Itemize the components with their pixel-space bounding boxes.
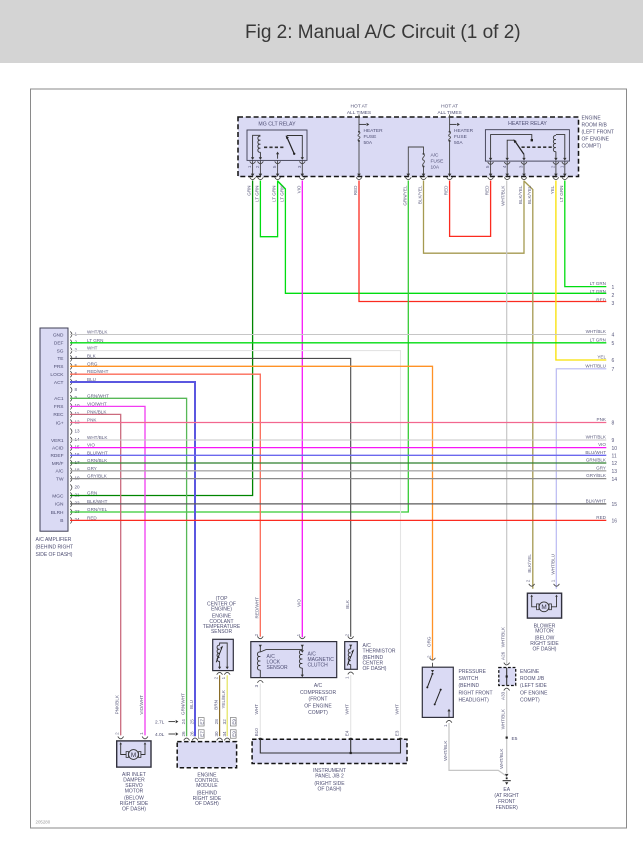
svg-text:WHT/BLK: WHT/BLK [501, 708, 506, 729]
mid wire colour labels [115, 554, 556, 769]
svg-text:6: 6 [75, 371, 78, 376]
A/C amplifier pin connectors and numbers [70, 331, 80, 523]
wire PNK/BLK amplifier pin11 to servo motor pin2 [70, 414, 121, 735]
svg-text:COMPT): COMPT) [520, 698, 540, 704]
svg-text:1: 1 [75, 331, 78, 336]
svg-text:COMPT): COMPT) [308, 710, 328, 716]
svg-text:GRY: GRY [596, 465, 606, 470]
wire WHT/BLK amplifier pin14 to right exit 9 [70, 439, 606, 441]
svg-text:2: 2 [255, 165, 260, 168]
svg-text:4: 4 [612, 333, 615, 339]
wire LT GRN heater relay pin1 to right exit 1 [565, 181, 607, 287]
svg-text:34: 34 [222, 731, 227, 737]
svg-text:6: 6 [612, 358, 615, 364]
wire RED/WHT amplifier pin6 to A/C lock sensor pin2 [70, 374, 260, 637]
svg-text:BLU/WHT: BLU/WHT [585, 450, 606, 455]
svg-text:BLK/YEL: BLK/YEL [418, 185, 423, 204]
svg-text:1: 1 [247, 165, 252, 168]
wire BLU/WHT amplifier pin16 to right exit 11 [70, 454, 606, 456]
wire YEL heater relay pin2 to right exit 6 [556, 181, 606, 361]
svg-text:FUSE: FUSE [431, 159, 444, 165]
svg-text:HOT AT: HOT AT [351, 104, 368, 110]
ECT sensor pin numbers [214, 676, 227, 679]
svg-text:E9: E9 [231, 719, 236, 725]
svg-text:12: 12 [75, 419, 81, 424]
wire BLU amplifier pin7 to ECM [70, 382, 195, 736]
svg-text:5: 5 [485, 165, 490, 168]
wire VIO relay pin3 to A/C magnetic clutch pin1 [301, 181, 303, 638]
header title bar [0, 0, 643, 63]
svg-text:OF DASH): OF DASH) [122, 806, 146, 812]
svg-text:2: 2 [75, 340, 78, 345]
svg-text:3: 3 [254, 684, 259, 687]
svg-text:2.7L: 2.7L [155, 719, 165, 725]
svg-text:FUSE: FUSE [364, 134, 377, 140]
svg-text:OF DASH): OF DASH) [363, 666, 387, 672]
svg-text:VIO: VIO [296, 185, 301, 193]
svg-text:(BEHIND RIGHT: (BEHIND RIGHT [36, 545, 74, 551]
svg-text:WHT/BLK: WHT/BLK [501, 185, 506, 206]
svg-text:20: 20 [75, 484, 81, 489]
svg-text:IGN: IGN [55, 502, 64, 508]
svg-text:FUSE: FUSE [454, 134, 467, 140]
wire VIO/WHT amplifier pin10 to servo motor pin1 [70, 406, 145, 735]
svg-text:BLK/YEL: BLK/YEL [527, 185, 532, 204]
svg-text:2: 2 [214, 676, 219, 679]
svg-text:WHT/BLK: WHT/BLK [499, 748, 504, 769]
compressor pin numbers 2 1 3 [254, 633, 301, 687]
svg-text:3: 3 [612, 301, 615, 307]
svg-text:CLUTCH: CLUTCH [308, 663, 329, 669]
wire WHT/BLK pressure switch pin1 to ground EA [449, 723, 507, 776]
svg-text:2: 2 [254, 633, 259, 636]
top wire colour labels [247, 185, 564, 206]
svg-text:COMPT): COMPT) [582, 144, 602, 150]
svg-text:ORG: ORG [87, 361, 98, 366]
pressure switch pin numbers [426, 655, 448, 727]
svg-text:BLK: BLK [87, 353, 97, 358]
svg-text:M: M [131, 752, 136, 759]
hot at all times feed 1 [347, 104, 371, 117]
svg-text:12: 12 [612, 461, 618, 467]
svg-text:OF DASH): OF DASH) [195, 801, 219, 807]
A/C amplifier wire colour labels [87, 330, 109, 521]
instrument panel J/B 2 block [252, 738, 407, 763]
svg-text:RED: RED [87, 515, 97, 520]
MG CLT relay pin stubs and connectors [250, 160, 306, 179]
svg-text:WHT/BLK: WHT/BLK [501, 626, 506, 647]
wire LT GRN branch to right exit 2 [278, 181, 607, 293]
svg-text:PNK/BLK: PNK/BLK [115, 694, 120, 714]
svg-text:PANEL J/B 2: PANEL J/B 2 [315, 774, 344, 780]
svg-text:FRS: FRS [54, 404, 64, 410]
svg-text:WHT/BLK: WHT/BLK [586, 435, 607, 440]
svg-text:1: 1 [443, 724, 448, 727]
svg-text:9: 9 [612, 438, 615, 444]
svg-text:1: 1 [559, 165, 564, 168]
wire YEL/BLK ECT sensor pin1 to ECM [226, 675, 228, 736]
svg-text:ENGINE: ENGINE [520, 669, 540, 675]
svg-text:BLK/WHT: BLK/WHT [87, 499, 108, 504]
svg-text:16: 16 [75, 452, 81, 457]
svg-text:15: 15 [75, 444, 81, 449]
fuse HEATER FUSE 50A (right) [447, 115, 474, 180]
svg-text:32: 32 [222, 719, 227, 725]
svg-text:E5: E5 [512, 736, 518, 742]
wire GRN/BLK amplifier pin17 to right exit 12 [70, 462, 606, 464]
svg-text:RED/WHT: RED/WHT [254, 597, 259, 619]
wire LT GRN amplifier pin2 to right exit 5 [70, 342, 606, 344]
svg-text:LT GRN: LT GRN [590, 281, 606, 286]
svg-text:MODULE: MODULE [196, 783, 218, 789]
svg-text:RED: RED [444, 185, 449, 195]
svg-text:28: 28 [214, 719, 219, 725]
svg-text:8: 8 [612, 421, 615, 427]
svg-text:E7: E7 [199, 731, 204, 737]
svg-text:WHT: WHT [254, 704, 259, 715]
A/C compressor caption [300, 683, 337, 716]
fuse HEATER FUSE 50A (left) [356, 115, 383, 180]
svg-text:RIGHT FRONT: RIGHT FRONT [459, 690, 493, 696]
wire WHT amplifier pin3 to instrument panel J/B pin E3 [70, 351, 401, 737]
svg-text:BLU/WHT: BLU/WHT [87, 450, 108, 455]
svg-text:WHT/BLK: WHT/BLK [87, 435, 108, 440]
svg-text:2: 2 [426, 655, 431, 658]
svg-text:5: 5 [272, 165, 277, 168]
svg-text:15: 15 [612, 502, 618, 508]
svg-text:24: 24 [181, 719, 186, 725]
engine room R/B label [582, 116, 614, 150]
svg-text:HOT AT: HOT AT [441, 104, 458, 110]
wire BRN ECT sensor pin2 to ECM [219, 675, 221, 736]
wire GRY amplifier pin18 to right exit 13 [70, 470, 606, 472]
svg-text:SG: SG [57, 348, 64, 354]
A/C amplifier pin names [50, 332, 64, 524]
instrument panel J/B pin labels B10 E4 E3 [254, 728, 399, 737]
svg-text:205280: 205280 [36, 820, 51, 825]
svg-text:LT GRN: LT GRN [559, 186, 564, 202]
svg-text:17: 17 [75, 460, 81, 465]
svg-text:LT GRN: LT GRN [272, 186, 277, 202]
svg-text:30: 30 [214, 731, 219, 737]
svg-text:BLK: BLK [345, 599, 350, 609]
svg-text:50A: 50A [454, 140, 463, 146]
svg-text:1: 1 [139, 732, 144, 735]
svg-text:E4: E4 [345, 730, 350, 736]
ECM caption [193, 772, 222, 807]
engine room R/B dashed block [238, 117, 579, 177]
svg-text:2: 2 [551, 165, 556, 168]
wire LT GRN relay pin2/pin5 link [260, 181, 277, 237]
svg-text:GRN/BLK: GRN/BLK [87, 458, 108, 463]
svg-text:YEL: YEL [597, 355, 606, 360]
A/C compressor block with lock sensor and magnetic clutch [251, 636, 337, 682]
svg-text:DEF: DEF [54, 341, 64, 347]
fuse A/C FUSE 10A [405, 147, 443, 180]
svg-text:MOTOR: MOTOR [535, 629, 554, 635]
svg-text:HEATER: HEATER [364, 128, 384, 134]
svg-text:14: 14 [612, 477, 618, 483]
svg-text:(LEFT FRONT: (LEFT FRONT [582, 130, 614, 136]
A/C thermistor pin numbers [345, 633, 350, 679]
svg-text:B10: B10 [254, 728, 259, 737]
svg-text:BRN: BRN [214, 700, 219, 710]
right edge exit labels and numbers [585, 281, 617, 524]
svg-text:13: 13 [612, 469, 618, 475]
svg-text:1: 1 [345, 676, 350, 679]
servo motor caption [120, 772, 149, 812]
svg-text:26: 26 [181, 731, 186, 737]
svg-text:11: 11 [75, 411, 80, 416]
svg-text:ACID: ACID [52, 445, 64, 451]
motor air inlet damper servo [117, 737, 151, 768]
svg-text:4: 4 [502, 165, 507, 168]
svg-text:19: 19 [75, 475, 81, 480]
svg-text:11: 11 [612, 454, 617, 460]
pressure switch caption [459, 669, 493, 704]
wire WHT/BLU right exit 7 to blower motor pin1 [556, 369, 606, 589]
svg-text:WHT: WHT [395, 704, 400, 715]
svg-text:OF DASH): OF DASH) [533, 647, 557, 653]
engine room J/B block [499, 663, 516, 691]
svg-text:GRN/YEL: GRN/YEL [402, 185, 407, 206]
svg-text:REC: REC [53, 412, 64, 418]
wire RED heater fuse right to heater relay pin5 [450, 181, 491, 237]
svg-text:50A: 50A [364, 140, 373, 146]
svg-text:THERMISTOR: THERMISTOR [363, 648, 396, 654]
wire PNK amplifier pin12 to right exit 8 [70, 422, 606, 424]
relay HEATER RELAY [485, 121, 569, 161]
svg-text:HEADLIGHT): HEADLIGHT) [459, 698, 490, 704]
svg-text:A/C AMPLIFIER: A/C AMPLIFIER [36, 537, 72, 543]
svg-text:ROOM J/B: ROOM J/B [520, 676, 545, 682]
svg-text:ENGINE): ENGINE) [211, 607, 232, 613]
svg-text:IG+: IG+ [56, 420, 64, 426]
svg-text:21: 21 [75, 492, 81, 497]
svg-text:GRN/WHT: GRN/WHT [181, 693, 186, 715]
svg-text:FENDER): FENDER) [496, 805, 519, 811]
svg-text:WHT: WHT [87, 346, 98, 351]
svg-text:VIO: VIO [296, 599, 301, 607]
wire GRY/BLK amplifier pin19 to right exit 14 [70, 478, 606, 480]
svg-text:MGC: MGC [52, 493, 64, 499]
svg-text:1: 1 [296, 633, 301, 636]
IC A/C amplifier block [40, 328, 68, 531]
svg-text:PRESSURE: PRESSURE [459, 669, 487, 675]
node E5 [506, 736, 518, 742]
svg-text:TE: TE [57, 356, 63, 362]
svg-text:E9: E9 [231, 731, 236, 737]
svg-text:YEL: YEL [550, 185, 555, 194]
svg-text:VIO: VIO [598, 442, 606, 447]
ECM pin variant rows 2.7L and 4.0L [155, 718, 236, 739]
svg-text:7: 7 [612, 367, 615, 373]
svg-text:SENSOR: SENSOR [211, 629, 233, 635]
svg-text:ENGINE: ENGINE [582, 116, 602, 122]
svg-text:5: 5 [612, 341, 615, 347]
svg-text:SWITCH: SWITCH [459, 676, 479, 682]
svg-text:ACT: ACT [54, 380, 64, 386]
svg-text:BLK/YEL: BLK/YEL [518, 185, 523, 204]
svg-text:WHT/BLU: WHT/BLU [550, 554, 555, 575]
svg-text:PNK: PNK [597, 417, 607, 422]
svg-text:LT GRN: LT GRN [279, 186, 284, 202]
svg-text:4: 4 [75, 355, 78, 360]
svg-text:BLU: BLU [189, 700, 194, 709]
wire WHT lock sensor pin3 to instrument panel J/B pin B10 [259, 684, 261, 737]
wire BLK amplifier pin4 to A/C thermistor pin2 [70, 358, 351, 636]
svg-text:10: 10 [75, 403, 81, 408]
svg-text:A/C: A/C [56, 469, 65, 475]
svg-text:AC1: AC1 [54, 396, 64, 402]
svg-text:1: 1 [612, 285, 615, 291]
svg-text:GND: GND [53, 332, 64, 338]
svg-text:OF DASH): OF DASH) [318, 787, 342, 793]
MG CLT relay pin numbers 1 2 5 3 [247, 165, 302, 168]
svg-text:RED/WHT: RED/WHT [87, 369, 109, 374]
heater relay pin stubs and connectors [488, 161, 568, 180]
svg-text:COMPRESSOR: COMPRESSOR [300, 690, 337, 696]
svg-text:3: 3 [519, 165, 524, 168]
wire BLK/YEL A/C fuse to heater relay pin3 [424, 181, 525, 254]
svg-text:VER1: VER1 [51, 438, 64, 444]
svg-text:10: 10 [612, 446, 618, 452]
svg-text:GRY/BLK: GRY/BLK [586, 473, 607, 478]
svg-text:OF ENGINE: OF ENGINE [304, 703, 332, 709]
svg-text:BLRH: BLRH [51, 510, 64, 516]
svg-text:18: 18 [75, 468, 81, 473]
svg-text:A33: A33 [501, 691, 506, 700]
svg-text:MOTOR: MOTOR [125, 788, 144, 794]
svg-text:8: 8 [75, 387, 78, 392]
svg-text:M: M [541, 604, 546, 611]
svg-text:24: 24 [75, 517, 81, 522]
svg-text:RED: RED [485, 185, 490, 195]
engine room J/B pin labels A26 A33 [501, 651, 506, 700]
svg-text:GRN: GRN [247, 186, 252, 196]
servo motor pin numbers [115, 732, 144, 735]
wire WHT/BLK amplifier pin1 to right exit 4 [70, 334, 606, 336]
svg-text:WHT/BLK: WHT/BLK [87, 330, 108, 335]
svg-text:PNK/BLK: PNK/BLK [87, 409, 107, 414]
wire RED amplifier pin24 to right exit 16 [70, 519, 606, 521]
svg-text:SENSOR: SENSOR [267, 665, 289, 671]
svg-text:A/C: A/C [314, 683, 323, 689]
svg-text:(LEFT SIDE: (LEFT SIDE [520, 683, 548, 689]
svg-text:WHT/BLU: WHT/BLU [585, 363, 606, 368]
ground EA [503, 774, 511, 785]
wire GRN relay pin1 to amplifier pin21 [70, 181, 253, 496]
wire GRN/YEL A/C fuse to amplifier pin23 [70, 181, 408, 513]
svg-text:LT GRN: LT GRN [87, 338, 103, 343]
wire WHT/BLK heater relay pin4 to engine room J/B [506, 181, 508, 664]
svg-text:2: 2 [612, 293, 615, 299]
svg-text:BLK/WHT: BLK/WHT [586, 498, 607, 503]
svg-text:16: 16 [612, 519, 618, 525]
svg-text:PNK: PNK [87, 418, 97, 423]
svg-text:3: 3 [297, 165, 302, 168]
svg-text:HEATER: HEATER [454, 128, 474, 134]
sensor engine coolant temperature [203, 596, 241, 635]
svg-text:BLK/YEL: BLK/YEL [527, 554, 532, 573]
heater relay pin numbers 5 4 3 2 1 [485, 165, 564, 168]
blower motor caption [530, 623, 559, 652]
svg-text:E7: E7 [199, 719, 204, 725]
svg-text:LT GRN: LT GRN [590, 337, 606, 342]
svg-text:PRS: PRS [54, 364, 64, 370]
svg-text:3: 3 [75, 347, 78, 352]
engine room J/B caption [520, 669, 548, 704]
svg-text:RDEF: RDEF [50, 453, 63, 459]
svg-text:TW: TW [56, 476, 64, 482]
svg-text:4.0L: 4.0L [155, 732, 165, 738]
wire BLK/YEL heater relay pin3 branch to blower motor pin2 [524, 181, 533, 589]
svg-text:13: 13 [75, 428, 81, 433]
svg-text:22: 22 [75, 501, 81, 506]
svg-text:GRN/YEL: GRN/YEL [87, 507, 108, 512]
wire WHT/BLK engine room J/B to ground EA [506, 690, 508, 773]
svg-text:WHT/BLK: WHT/BLK [443, 740, 448, 761]
svg-text:MG CLT RELAY: MG CLT RELAY [258, 122, 296, 128]
svg-text:VIO/WHT: VIO/WHT [87, 401, 107, 406]
svg-text:10A: 10A [431, 165, 440, 171]
svg-text:25: 25 [190, 719, 195, 725]
svg-text:ORG: ORG [427, 636, 432, 647]
wire GRN/WHT amplifier pin9 to ECM [70, 398, 187, 736]
svg-text:A26: A26 [501, 651, 506, 660]
relay MG CLT RELAY [247, 122, 307, 161]
svg-text:OF ENGINE: OF ENGINE [582, 137, 610, 143]
svg-text:LOCK: LOCK [50, 372, 64, 378]
svg-text:YEL/BLK: YEL/BLK [221, 689, 226, 709]
wire ORG amplifier pin5 to pressure switch pin2 [70, 366, 433, 660]
svg-text:RED: RED [596, 515, 606, 520]
svg-text:(BEHIND: (BEHIND [459, 683, 480, 689]
wire BLK/WHT amplifier pin22 to right exit 15 [70, 503, 606, 505]
svg-text:HEATER RELAY: HEATER RELAY [508, 121, 547, 127]
svg-text:23: 23 [75, 509, 81, 514]
svg-text:2: 2 [526, 579, 531, 582]
svg-text:2: 2 [115, 732, 120, 735]
svg-text:LT GRN: LT GRN [254, 186, 259, 202]
A/C thermistor [345, 636, 358, 674]
svg-text:GRN/BLK: GRN/BLK [586, 458, 607, 463]
wire WHT thermistor pin1 to instrument panel J/B pin E4 [350, 675, 352, 736]
svg-text:MR/F: MR/F [52, 461, 64, 467]
instrument panel J/B caption [313, 768, 346, 793]
svg-text:VIO: VIO [87, 443, 95, 448]
svg-text:GRY/BLK: GRY/BLK [87, 474, 108, 479]
svg-text:1: 1 [550, 579, 555, 582]
wire RED heater fuse left to right exit 3 [359, 181, 606, 302]
A/C thermistor caption [363, 643, 396, 672]
svg-text:9: 9 [75, 395, 78, 400]
svg-text:(FRONT: (FRONT [309, 697, 328, 703]
svg-text:OF ENGINE: OF ENGINE [520, 690, 548, 696]
svg-text:A/C: A/C [431, 153, 440, 159]
svg-text:SIDE OF DASH): SIDE OF DASH) [36, 552, 73, 558]
svg-text:GRN: GRN [87, 491, 97, 496]
svg-text:26: 26 [190, 731, 195, 737]
engine control module block [177, 738, 236, 768]
svg-text:5: 5 [75, 363, 78, 368]
motor blower [527, 584, 561, 618]
svg-text:E3: E3 [394, 730, 399, 736]
svg-text:WHT: WHT [345, 704, 350, 715]
ground EA caption [494, 787, 519, 811]
wire VIO amplifier pin15 to right exit 10 [70, 447, 606, 449]
blower motor pin numbers [526, 579, 556, 582]
